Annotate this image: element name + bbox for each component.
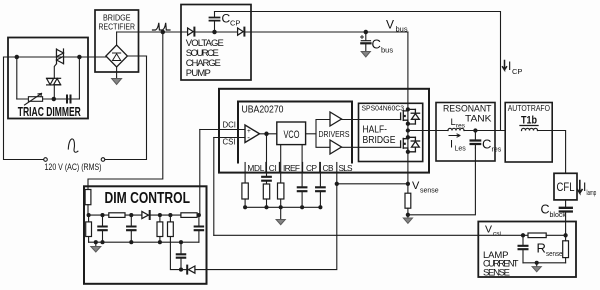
svg-text:TRIAC DIMMER: TRIAC DIMMER xyxy=(18,105,81,119)
node dim brail r2 xyxy=(158,241,161,244)
wire SLS to dim diode xyxy=(195,184,337,270)
wire tank mid xyxy=(464,130,505,132)
label VOLTAGE SOURCE CHARGE PUMP xyxy=(186,38,224,79)
diode D dim rail xyxy=(142,211,149,218)
svg-text:CP: CP xyxy=(306,163,317,173)
resistor R ci xyxy=(263,184,269,199)
IC outer box xyxy=(219,89,429,173)
wire AC line right to bridge xyxy=(105,56,147,160)
ground lamp sense xyxy=(532,267,541,272)
VCO box xyxy=(277,122,306,145)
svg-text:Les: Les xyxy=(455,146,467,153)
svg-text:I: I xyxy=(450,139,453,151)
wire CFL to C block xyxy=(565,200,567,235)
svg-text:SPS04N60C3: SPS04N60C3 xyxy=(362,104,405,113)
ground pins rail xyxy=(276,220,285,225)
wire gate upper xyxy=(342,119,401,121)
wire DCI feed down xyxy=(199,130,201,216)
rheostat arrow xyxy=(25,94,42,106)
svg-text:DRIVERS: DRIVERS xyxy=(319,129,350,139)
node Q1 drain xyxy=(406,108,409,111)
diode D2 pump input xyxy=(188,28,194,35)
wire half-bridge chain xyxy=(407,110,409,152)
TRIAC DIMMER box xyxy=(8,38,88,119)
svg-text:120 V (AC) (RMS): 120 V (AC) (RMS) xyxy=(45,162,102,172)
svg-text:bus: bus xyxy=(396,25,408,34)
node triac top left xyxy=(15,55,18,58)
capacitor C dim 3 xyxy=(198,215,200,242)
CFL box xyxy=(554,173,577,200)
node sense resistor bottom xyxy=(406,213,409,216)
node rail cb xyxy=(319,206,322,209)
svg-text:sense: sense xyxy=(420,188,439,195)
svg-text:CSI: CSI xyxy=(223,138,236,147)
node half-bridge midpoint xyxy=(406,129,409,132)
capacitor C cb xyxy=(316,187,325,191)
wire below sense resistor xyxy=(407,208,409,218)
svg-text:DCI: DCI xyxy=(223,121,236,130)
wire triac gate xyxy=(54,64,56,79)
wire triac left branch xyxy=(16,57,18,99)
wire V sense node to resistor xyxy=(407,184,409,193)
wire sense bottom rail xyxy=(523,262,566,264)
node dim feed junction xyxy=(161,30,164,33)
resistor R csi horizontal xyxy=(528,233,546,238)
node AC terminal right xyxy=(101,158,105,162)
node dim rail r3 xyxy=(169,214,172,217)
svg-text:CP: CP xyxy=(230,19,240,28)
node rail ci xyxy=(265,206,268,209)
svg-text:CP: CP xyxy=(512,67,522,76)
label LAMP CURRENT SENSE xyxy=(483,250,519,279)
DIM CONTROL box xyxy=(84,186,207,283)
svg-text:VCO: VCO xyxy=(284,129,300,141)
capacitor C dim 1 xyxy=(102,215,104,242)
svg-text:block: block xyxy=(550,212,567,219)
transistor Q1 upper MOSFET xyxy=(401,109,420,124)
wire DCI input xyxy=(200,129,245,131)
capacitor C ci xyxy=(262,177,271,181)
svg-text:AUTOTRAFO: AUTOTRAFO xyxy=(508,104,550,113)
svg-text:I: I xyxy=(508,59,511,73)
svg-text:SLS: SLS xyxy=(339,163,353,173)
RESONANT TANK box xyxy=(436,103,495,162)
node csi cap tap xyxy=(521,234,524,237)
wire autotrafo out xyxy=(538,131,566,174)
node dim rail r2 xyxy=(158,214,161,217)
waveform glyph xyxy=(153,23,171,30)
wire IREF branch from VCO xyxy=(280,145,282,185)
wire dim bottom rail xyxy=(89,241,199,243)
pin row separators xyxy=(266,163,320,173)
transistor Q2 lower MOSFET xyxy=(401,137,420,152)
wire diac to bottom xyxy=(53,85,55,99)
resistor R sense xyxy=(563,241,569,258)
svg-text:res: res xyxy=(456,123,466,130)
svg-text:bus: bus xyxy=(381,46,393,55)
label I Les with arrow xyxy=(449,134,460,137)
ground dim xyxy=(91,247,101,253)
op-amp U1 xyxy=(245,125,260,143)
node C CP tap xyxy=(213,30,216,33)
resistor R iref xyxy=(278,183,284,199)
svg-text:UBA20270: UBA20270 xyxy=(242,104,284,116)
svg-text:V: V xyxy=(412,180,420,192)
node dim rail c2 xyxy=(130,214,133,217)
resistor R dim in xyxy=(85,190,91,205)
capacitor C triac xyxy=(67,96,71,103)
wire AC line left drop xyxy=(4,57,44,160)
wire rectified bus xyxy=(117,31,187,33)
resistor R mdl xyxy=(242,183,248,199)
resistor R dim h1 xyxy=(109,213,125,218)
label I lamp with arrow xyxy=(578,181,583,194)
wire rail ground stub xyxy=(280,207,282,219)
node dim rail right xyxy=(197,214,200,217)
node op-amp out xyxy=(265,132,268,135)
node Q2 source xyxy=(406,150,409,153)
resistor R dim h2 xyxy=(181,213,197,218)
svg-text:CB: CB xyxy=(323,163,334,173)
wire gate lower xyxy=(342,146,401,148)
svg-text:res: res xyxy=(492,147,502,154)
node sense ground xyxy=(535,261,538,264)
wire dim lower jog xyxy=(170,242,181,269)
svg-text:PUMP: PUMP xyxy=(186,68,211,79)
LAMP CURRENT SENSE box xyxy=(478,222,576,278)
node V sense junction xyxy=(406,182,409,185)
AC sine symbol xyxy=(68,139,78,152)
wire SLS branch xyxy=(336,163,338,184)
wire dim diode lead xyxy=(181,269,188,271)
UBA20270 box xyxy=(238,102,352,163)
node C res tap xyxy=(474,129,477,132)
wire C res return xyxy=(408,148,476,215)
resistor R dim v3 xyxy=(168,222,174,237)
node dim brail cap xyxy=(180,241,183,244)
capacitor C csi xyxy=(522,235,524,262)
wire CSI input xyxy=(214,137,245,139)
resistor R sense half-bridge xyxy=(405,193,411,208)
wire VCO out xyxy=(306,133,316,135)
wire MDL branch xyxy=(244,163,246,185)
wire pump output xyxy=(244,31,408,33)
wire CSI feed down xyxy=(213,138,215,236)
svg-text:C: C xyxy=(541,203,550,217)
svg-text:sense: sense xyxy=(546,251,563,258)
wire CI branch from op-amp xyxy=(266,134,268,177)
svg-text:lamp: lamp xyxy=(587,190,597,197)
ground C bus xyxy=(361,52,370,58)
diode D3 pump output xyxy=(238,28,244,35)
capacitor C block xyxy=(560,208,572,212)
wire bridge right AC xyxy=(127,55,146,57)
VOLTAGE SOURCE CHARGE PUMP box xyxy=(181,5,251,81)
wire midpoint to tank xyxy=(408,130,448,132)
wire bridge output stub xyxy=(116,32,118,45)
node Q1 source xyxy=(406,122,409,125)
capacitor C cp pin xyxy=(298,187,307,191)
node dim brail c2 xyxy=(130,241,133,244)
node dim diode left xyxy=(180,268,183,271)
svg-text:DIM CONTROL: DIM CONTROL xyxy=(105,190,191,207)
triac TR1 xyxy=(57,49,64,64)
wire triac right branch xyxy=(78,57,80,99)
resistor R dim v1 xyxy=(86,222,92,237)
capacitor C dim 2 xyxy=(130,215,132,242)
svg-text:SENSE: SENSE xyxy=(483,267,510,278)
wire pins common rail xyxy=(245,206,320,208)
wire V bus down xyxy=(407,32,409,110)
node SLS junction xyxy=(335,182,338,185)
node dim rail left xyxy=(87,214,90,217)
svg-text:TANK: TANK xyxy=(465,113,492,124)
svg-text:BRIDGE: BRIDGE xyxy=(363,134,396,146)
svg-text:V: V xyxy=(485,224,492,236)
node triac top right xyxy=(78,55,81,58)
svg-text:C: C xyxy=(482,137,491,152)
resistor R dim v2 xyxy=(157,222,163,237)
node dim brail c1 xyxy=(101,241,104,244)
ground bridge xyxy=(112,79,122,85)
node dim rail c1 xyxy=(101,214,104,217)
node dim ground xyxy=(94,241,97,244)
inductor T1b coil xyxy=(522,128,538,130)
rheostat R dim xyxy=(28,97,42,102)
svg-text:T1b: T1b xyxy=(521,115,537,127)
svg-text:IREF: IREF xyxy=(283,163,300,173)
svg-text:BRIDGE: BRIDGE xyxy=(103,14,131,23)
diode D dim out xyxy=(188,266,195,273)
svg-text:L: L xyxy=(451,117,456,128)
wire driver bracket xyxy=(316,120,330,148)
BRIDGE RECTIFIER box xyxy=(95,10,139,72)
wire dim top rail xyxy=(88,214,200,216)
node rail mdl xyxy=(244,206,247,209)
svg-text:RECTIFIER: RECTIFIER xyxy=(99,23,136,32)
svg-text:-: - xyxy=(247,133,250,142)
wire V csi rail xyxy=(214,234,528,236)
wire bridge ground stub xyxy=(116,67,118,79)
bridge inner diode xyxy=(113,53,121,61)
svg-text:R: R xyxy=(537,241,546,256)
diac D1 xyxy=(47,78,61,85)
capacitor C res xyxy=(474,131,476,149)
wire CB branch xyxy=(319,163,321,188)
svg-text:CFL: CFL xyxy=(557,180,575,194)
wire SLS to V sense xyxy=(337,183,408,185)
wire sense ground stub xyxy=(536,263,538,267)
wire resistor to R sense node xyxy=(546,234,565,236)
label I CP with arrow xyxy=(503,61,507,70)
wire op-amp out xyxy=(260,133,277,135)
svg-text:CI: CI xyxy=(269,163,277,173)
wire triac top rail xyxy=(4,56,107,58)
svg-text:C: C xyxy=(372,37,381,52)
wire dim feed down xyxy=(88,32,163,190)
node AC terminal left xyxy=(44,158,48,162)
pin labels MDL CI IREF CP CB SLS xyxy=(247,163,353,173)
svg-text:V: V xyxy=(386,18,394,32)
driver buffer upper xyxy=(330,112,342,126)
node R sense top xyxy=(564,234,567,237)
wire CP branch from VCO xyxy=(301,145,303,187)
AUTOTRAFO box xyxy=(505,103,552,163)
wire charge pump top feedback xyxy=(215,12,501,131)
SPS04N60C3 box xyxy=(359,103,423,161)
driver buffer lower xyxy=(330,140,342,154)
inductor L res xyxy=(448,128,464,130)
wire triac bottom rail xyxy=(17,98,80,100)
svg-text:MDL: MDL xyxy=(247,163,264,173)
node rail cp xyxy=(301,206,304,209)
node rail iref xyxy=(279,206,282,209)
capacitor C CP xyxy=(214,12,216,33)
wire pump mid xyxy=(194,31,237,33)
capacitor C dim 4 xyxy=(180,242,182,269)
bridge diamond xyxy=(106,45,128,67)
node diac bottom xyxy=(52,97,55,100)
svg-text:csi: csi xyxy=(493,231,501,238)
node Q2 drain xyxy=(406,136,409,139)
wire dim ground stub xyxy=(95,242,97,246)
capacitor C bus polarized xyxy=(365,32,367,51)
wire lower source down xyxy=(407,152,409,184)
node C bus tap xyxy=(364,30,367,33)
ground V sense xyxy=(403,218,412,223)
